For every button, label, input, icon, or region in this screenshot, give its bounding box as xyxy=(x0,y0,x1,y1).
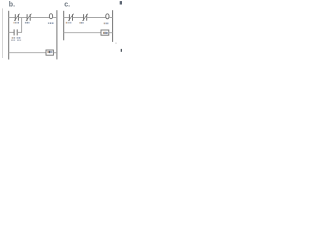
END text (c) xyxy=(103,32,108,34)
coil (diagram c) xyxy=(106,14,109,19)
svg-text:b.: b. xyxy=(9,1,15,8)
faint page rule (left) xyxy=(1,8,3,58)
wire rung1 b: rail to contact XA xyxy=(9,17,16,19)
contact XB (NC) xyxy=(26,14,31,21)
coil Y (diagram b) xyxy=(49,14,52,19)
wire rung1 b: contact XA to contact XB xyxy=(18,17,27,19)
contact B (NC) xyxy=(83,14,88,21)
label under coil (c) xyxy=(104,23,109,25)
label under contact XA xyxy=(14,22,20,24)
left rail (diagram b) xyxy=(8,11,10,60)
label under contact XB xyxy=(25,22,30,24)
wire rung1 c: coil to right rail xyxy=(109,17,113,19)
branch riser (node after XA) xyxy=(21,18,23,33)
wire rung1 b: coil to right rail xyxy=(53,17,57,19)
wire branch b: contact Y to riser xyxy=(17,31,22,33)
wire rung1 c: rail to contact A xyxy=(64,17,70,19)
wire rung1 b: contact XB to coil xyxy=(30,17,50,19)
label under coil Y (b) xyxy=(48,22,54,24)
contact A (NC) xyxy=(68,14,73,21)
END box (diagram c) xyxy=(101,30,109,35)
contact Y (NO, seal-in) xyxy=(14,29,17,35)
stray faint dot mid-right xyxy=(115,43,116,44)
label under contact B xyxy=(80,22,84,24)
label under contact Y (branch) xyxy=(11,37,21,41)
END box (diagram b) xyxy=(46,50,53,55)
wire rung2 b: rail to END box xyxy=(9,52,46,54)
stray mark right edge xyxy=(121,49,122,52)
svg-text:c.: c. xyxy=(64,1,70,8)
label under contact A xyxy=(66,22,72,24)
wire branch b: rail to contact Y xyxy=(9,31,14,33)
wire rung1 c: contact B to coil xyxy=(87,17,106,19)
stray glyph fragment top-right xyxy=(120,1,122,4)
wire rung1 c: contact A to contact B xyxy=(73,17,84,19)
right rail (diagram c) xyxy=(112,10,114,42)
left rail (diagram c) xyxy=(63,11,65,41)
contact XA (NC) xyxy=(14,14,19,21)
wire rung2 c: END box to right rail xyxy=(109,32,113,34)
END text (b) xyxy=(48,51,53,53)
wire rung2 c: rail to END box xyxy=(64,32,101,34)
right rail (diagram b) xyxy=(56,10,58,59)
wire rung2 b: END box to right rail xyxy=(53,52,57,54)
